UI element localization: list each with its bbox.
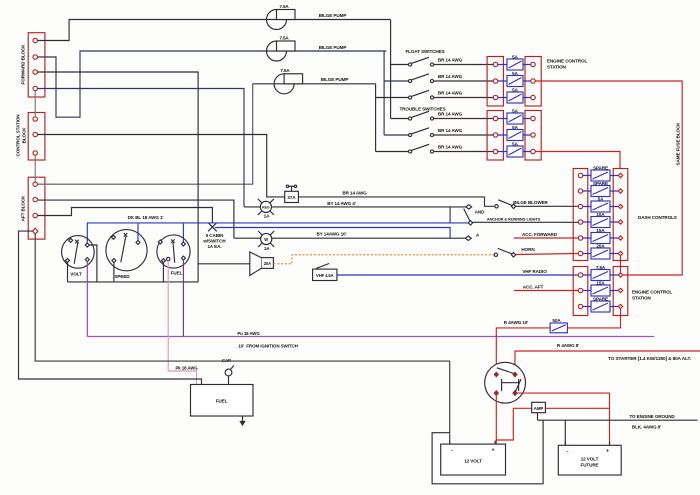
- svg-text:DASH CONTROLS: DASH CONTROLS: [638, 215, 677, 220]
- svg-text:5A: 5A: [512, 108, 518, 113]
- svg-text:w/SWITCH: w/SWITCH: [202, 239, 226, 244]
- wire dash row6 to engine row1 right red: [620, 256, 622, 273]
- switch BILGE BLOWER: [495, 200, 516, 209]
- fuse 5A row4: [493, 108, 535, 124]
- svg-text:TO STARTER [1.4 KW/1350] & 80A: TO STARTER [1.4 KW/1350] & 80A ALT.: [608, 356, 691, 361]
- svg-text:1A: 1A: [264, 246, 270, 251]
- fuse block DASH right box: [613, 169, 628, 261]
- wire speaker feed from gauge tap: [198, 263, 250, 265]
- svg-text:ENGINE CONTROL: ENGINE CONTROL: [547, 58, 587, 63]
- wire switch to battery1 plus red: [496, 394, 513, 444]
- svg-text:VHF 4.5A: VHF 4.5A: [316, 273, 334, 278]
- svg-text:FLOAT SWITCHES: FLOAT SWITCHES: [405, 49, 444, 54]
- wire FWD-1 to bilge pump 1: [38, 20, 391, 41]
- fuse block DASH left box: [573, 169, 588, 261]
- wire FWD-2 to bilge pump 2: [38, 51, 387, 117]
- svg-text:7.5A: 7.5A: [279, 4, 289, 9]
- svg-text:5A: 5A: [512, 71, 518, 76]
- radio box VHF 4.5A: [313, 264, 337, 281]
- terminal AFT-1: [33, 182, 37, 186]
- svg-text:FUTURE: FUTURE: [580, 462, 598, 467]
- wire trouble2 to fuse: [434, 134, 494, 136]
- wire SAME FUSE BLOCK red loop: [535, 81, 682, 275]
- svg-text:+: +: [492, 447, 495, 453]
- wire float3 to fuse: [434, 97, 494, 99]
- fuse 5A row3: [493, 87, 535, 103]
- fuse block float left box: [487, 57, 503, 107]
- lamp W anchor light: [258, 231, 274, 247]
- wire R 4AWG 8 to starter red: [515, 351, 700, 371]
- speaker horn: [250, 252, 274, 276]
- battery selector switch: [485, 362, 526, 403]
- svg-text:BR 14 AWG: BR 14 AWG: [438, 145, 463, 150]
- svg-text:5A: 5A: [512, 87, 518, 92]
- wire gauge ground bus: [68, 263, 199, 282]
- dash fuse 20A row6: [578, 243, 622, 259]
- svg-text:AMP: AMP: [534, 406, 544, 411]
- wire CTL-2 to breaker 37A: [38, 135, 285, 197]
- terminal FWD-3: [33, 70, 37, 74]
- wire battery1 minus loop to ground bus: [432, 420, 543, 484]
- svg-text:BR 14 AWG: BR 14 AWG: [438, 128, 463, 133]
- svg-text:BLK. 4AWG 8': BLK. 4AWG 8': [632, 425, 661, 430]
- wire pump3 feed column: [376, 84, 409, 152]
- fuse 5A row5: [493, 125, 535, 141]
- fuse 5A row2: [493, 71, 535, 87]
- svg-text:5A: 5A: [512, 141, 518, 146]
- svg-text:FUEL: FUEL: [216, 398, 228, 403]
- fuel tank: [191, 385, 254, 417]
- wire AFT-1 to bilge pump 3: [38, 84, 253, 184]
- wire BR 14 AWG from 37A to blower switch: [298, 197, 494, 206]
- svg-text:7.5A: 7.5A: [596, 265, 606, 270]
- switch TROUBLE-2: [409, 128, 434, 137]
- ammeter AMP box: [532, 402, 546, 412]
- svg-text:SPARE: SPARE: [593, 165, 608, 170]
- fuse block ENGINE lower right box: [613, 267, 628, 316]
- svg-text:7.5A: 7.5A: [279, 36, 289, 41]
- ammeter line red left: [513, 407, 531, 409]
- svg-text:5A: 5A: [512, 54, 518, 59]
- wire trouble row3 to dash block red: [535, 152, 620, 169]
- terminal block FORWARD BLOCK: [28, 33, 45, 97]
- fuel sender cap: [225, 366, 234, 385]
- lamp R&G running lights: [258, 199, 274, 215]
- svg-text:SPEED: SPEED: [114, 274, 130, 279]
- wire AFT-4 ground run to battery1 minus: [35, 234, 450, 443]
- svg-text:VHF RADIO: VHF RADIO: [522, 269, 547, 274]
- node arrow AND: [466, 205, 472, 209]
- terminal AFT-3: [33, 213, 37, 217]
- svg-text:R 4AWG 10': R 4AWG 10': [504, 320, 529, 325]
- svg-text:VOLT: VOLT: [70, 272, 82, 277]
- svg-text:10A: 10A: [596, 212, 605, 217]
- terminal CTL-2: [33, 132, 37, 136]
- fuse block float right box: [525, 57, 541, 107]
- terminal CTL-1: [33, 117, 37, 121]
- svg-text:15A: 15A: [596, 280, 605, 285]
- wire float1 to fuse: [434, 64, 494, 66]
- dash fuse 5A row3: [578, 196, 622, 212]
- wire pump3 to float column: [253, 83, 376, 85]
- switch FLOAT-1: [409, 57, 434, 66]
- dash fuse 10A row4: [578, 212, 622, 228]
- wire DK BL 18 AWG gauge light bus (blue): [87, 223, 470, 245]
- svg-text:ACC. FORWARD: ACC. FORWARD: [522, 232, 558, 237]
- wire switch to battery2 plus red: [517, 393, 610, 444]
- svg-text:W: W: [264, 237, 268, 242]
- fuse 5A row6: [493, 141, 535, 157]
- svg-text:BR 14 AWG: BR 14 AWG: [438, 91, 463, 96]
- svg-text:5 CABIN: 5 CABIN: [206, 233, 224, 238]
- fuse 50A battery: [550, 318, 567, 333]
- wire pump1 feed column: [391, 20, 409, 119]
- svg-text:BR 14 AWG: BR 14 AWG: [438, 74, 463, 79]
- wire float2 to fuse: [434, 80, 494, 82]
- terminal AFT-2: [33, 197, 37, 201]
- engine fuse 15A row2: [578, 280, 622, 296]
- switch FLOAT-3: [409, 90, 434, 99]
- svg-text:CAP: CAP: [222, 358, 231, 363]
- svg-text:20A: 20A: [264, 261, 271, 266]
- wire AFT-2 to cabin A line: [38, 200, 234, 238]
- wire FWD-4 to running light lamp line: [38, 89, 245, 207]
- svg-text:BR 14 AWG: BR 14 AWG: [342, 191, 367, 196]
- svg-text:12 VOLT: 12 VOLT: [581, 456, 599, 461]
- svg-text:TO ENGINE GROUND: TO ENGINE GROUND: [629, 414, 675, 419]
- wire purple FUEL drop: [182, 260, 184, 336]
- wire VOLT upper-right link: [89, 245, 97, 282]
- wire purple bus Pu 18 AWG: [87, 336, 654, 338]
- svg-text:SPARE: SPARE: [593, 181, 608, 186]
- wire link CTL-3 to AFT-1: [34, 155, 36, 182]
- dash fuse SPARE row1: [578, 165, 622, 181]
- fuse 5A row1: [493, 54, 535, 70]
- wire cabin return BY 14AWG 10 (blue): [215, 228, 450, 239]
- switch HORN: [494, 248, 516, 257]
- svg-text:37A: 37A: [287, 195, 296, 200]
- wire blower switch to dash fuse row3: [516, 205, 579, 207]
- engine fuse 7.5A row1: [578, 265, 622, 281]
- svg-text:FUEL: FUEL: [171, 271, 183, 276]
- wire blue drop to SPEED: [137, 223, 139, 241]
- terminal block AFT BLOCK: [28, 177, 45, 239]
- wire VHF RADIO blue: [337, 274, 579, 276]
- svg-text:STATION: STATION: [547, 65, 567, 70]
- battery 12 VOLT: [441, 441, 506, 476]
- svg-text:STATION: STATION: [632, 296, 652, 301]
- svg-text:CONTROL STATION: CONTROL STATION: [16, 114, 21, 157]
- svg-text:SPARE: SPARE: [593, 296, 608, 301]
- svg-text:15A: 15A: [596, 228, 605, 233]
- svg-text:BR 14 AWG: BR 14 AWG: [438, 112, 463, 117]
- fuse block trouble left box: [487, 111, 503, 161]
- svg-text:SAME FUSE BLOCK: SAME FUSE BLOCK: [676, 122, 681, 166]
- engine fuse SPARE row3: [578, 296, 622, 312]
- node arrow A: [465, 236, 471, 240]
- fuel tank drain arrow: [240, 416, 244, 425]
- svg-text:DK BL 18 AWG 1': DK BL 18 AWG 1': [128, 215, 164, 220]
- wire purple VOLT sender drop: [86, 262, 88, 337]
- svg-text:1A: 1A: [264, 214, 270, 219]
- wire horn switch to dash fuse row6 red: [516, 254, 579, 255]
- wire tap running lights to blue bus: [449, 207, 451, 223]
- wire trouble1 to fuse: [434, 118, 494, 120]
- svg-text:5A: 5A: [598, 196, 604, 201]
- wire pump2 feed column: [384, 51, 408, 135]
- battery 12 VOLT FUTURE: [558, 442, 621, 475]
- bilge pump P1: [267, 10, 287, 30]
- svg-text:BR 14 AWG: BR 14 AWG: [438, 58, 463, 63]
- svg-text:BLOCK: BLOCK: [22, 127, 27, 144]
- svg-text:AFT BLOCK: AFT BLOCK: [21, 195, 26, 221]
- terminal block CONTROL STATION BLOCK: [28, 113, 45, 161]
- svg-text:10' FROM IGNITION SWITCH: 10' FROM IGNITION SWITCH: [238, 344, 298, 349]
- svg-text:5A: 5A: [512, 125, 518, 130]
- switch TROUBLE-3: [409, 144, 434, 153]
- svg-text:BILGE PUMP: BILGE PUMP: [321, 77, 349, 82]
- svg-text:BY 14AWG 10': BY 14AWG 10': [317, 231, 347, 236]
- svg-text:ANCHOR & RUNNING LIGHTS: ANCHOR & RUNNING LIGHTS: [487, 216, 541, 221]
- svg-text:BY 14 AWG 4': BY 14 AWG 4': [327, 201, 356, 206]
- cabin lamp X symbol: [208, 223, 217, 232]
- svg-text:ACC. AFT: ACC. AFT: [523, 284, 544, 289]
- svg-text:7.5A: 7.5A: [280, 68, 290, 73]
- gauge SPEED: [106, 230, 147, 271]
- wire trouble3 to fuse: [434, 151, 494, 153]
- svg-text:BILGE PUMP: BILGE PUMP: [319, 45, 347, 50]
- ammeter line red right: [545, 407, 609, 409]
- svg-text:Pk 18 AWG: Pk 18 AWG: [175, 365, 198, 370]
- fuse block ENGINE lower left box: [573, 267, 588, 316]
- dash fuse SPARE row2: [578, 181, 622, 197]
- switch FLOAT-2: [409, 74, 434, 83]
- svg-text:12 VOLT: 12 VOLT: [464, 458, 482, 463]
- wire AFT-4 to fuel tank ground: [19, 231, 202, 384]
- dash fuse 15A row5: [578, 228, 622, 244]
- wire BY 14 AWG 4 running lights: [244, 206, 467, 208]
- wire pink FUEL sender: [168, 261, 196, 385]
- gauge VOLT: [62, 236, 95, 269]
- svg-text:+: +: [606, 449, 609, 455]
- terminal FWD-1: [33, 38, 37, 42]
- svg-text:FORWARD BLOCK: FORWARD BLOCK: [21, 44, 26, 85]
- fuse block trouble right box: [525, 111, 541, 161]
- wire orange horn wire: [273, 255, 494, 264]
- svg-text:R&G: R&G: [262, 206, 270, 210]
- svg-text:BILGE BLOWER: BILGE BLOWER: [513, 200, 548, 205]
- wire ACC. FORWARD red: [514, 237, 579, 239]
- svg-text:20A: 20A: [596, 243, 605, 248]
- svg-text:BILGE PUMP: BILGE PUMP: [319, 13, 347, 18]
- svg-text:1A EA.: 1A EA.: [207, 244, 221, 249]
- bilge pump P3: [274, 74, 294, 94]
- switch ANCHOR & RUNNING LIGHTS: [464, 209, 473, 225]
- wire engine spare row to battery switch red: [496, 309, 620, 371]
- svg-text:50A: 50A: [552, 318, 561, 323]
- svg-text:Pu 18 AWG: Pu 18 AWG: [237, 331, 260, 336]
- wire battery2 minus to ground bus: [564, 420, 566, 444]
- switch TROUBLE-1: [409, 111, 434, 120]
- svg-text:R 4AWG 8': R 4AWG 8': [557, 343, 579, 348]
- svg-text:AND: AND: [475, 210, 485, 215]
- wire ACC. AFT red: [514, 290, 579, 292]
- svg-text:HORN: HORN: [521, 247, 535, 252]
- wire W lamp line to node A: [234, 237, 466, 239]
- svg-text:ENGINE CONTROL: ENGINE CONTROL: [632, 290, 672, 295]
- terminal FWD-4: [33, 86, 37, 90]
- gauge FUEL: [157, 235, 190, 268]
- wire blue drop to FUEL: [182, 223, 184, 242]
- breaker 37A: [285, 185, 299, 202]
- wire link FWD-4 to CTL-1: [34, 91, 36, 117]
- wire ground bus engine: [538, 413, 698, 421]
- wire FWD-3 down to gauge ground bus: [38, 72, 199, 282]
- wire anchor switch to dash fuse row4: [473, 221, 579, 223]
- terminal CTL-3: [33, 151, 37, 155]
- terminal AFT-4 (diamond): [33, 228, 38, 234]
- wire AFT-3 to cabin lights: [38, 208, 213, 223]
- terminal FWD-2: [33, 55, 37, 59]
- bilge pump P2: [267, 41, 287, 61]
